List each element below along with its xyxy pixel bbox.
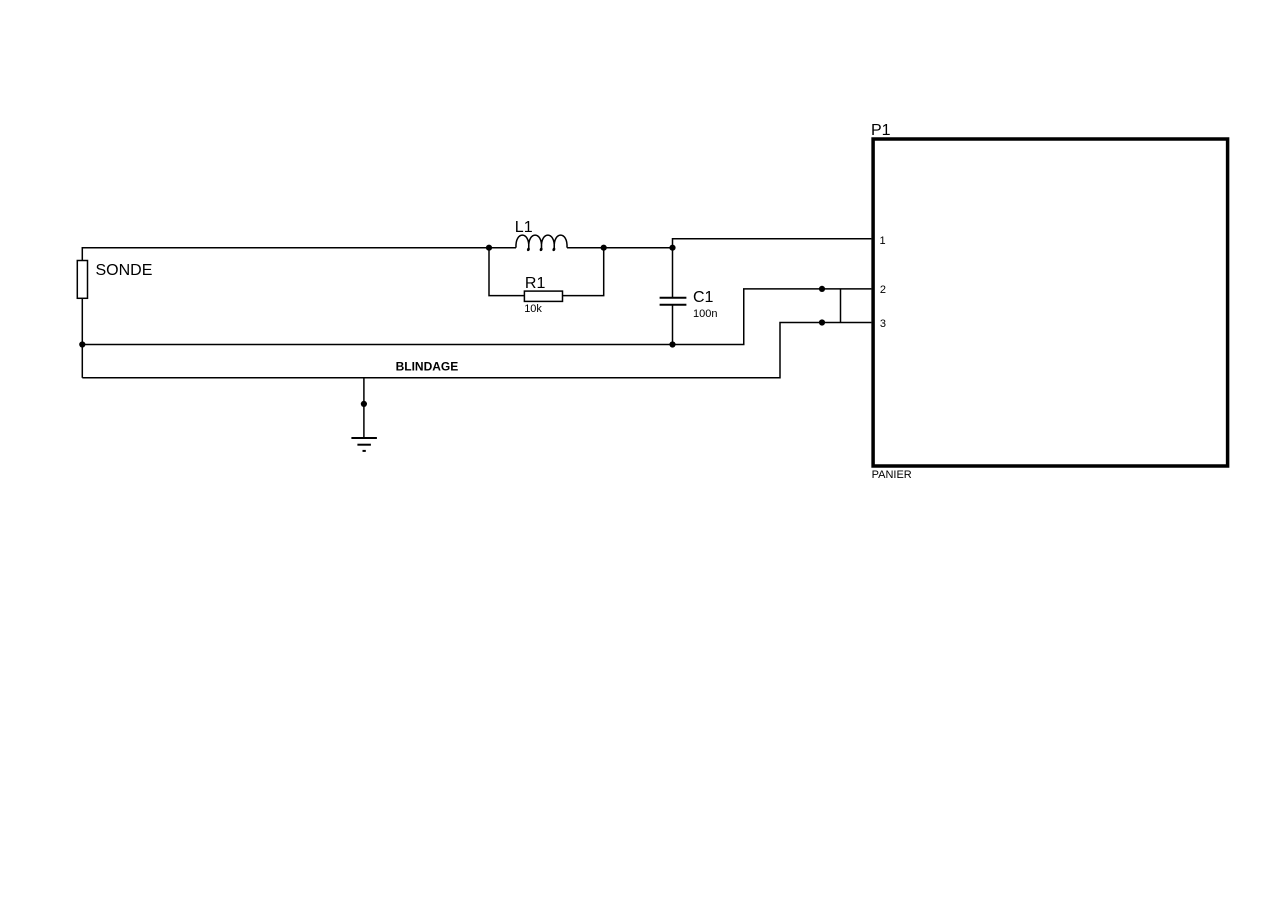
svg-text:P1: P1 xyxy=(871,122,891,139)
pin number 3 xyxy=(880,318,886,330)
node junction SONDE / middle wire xyxy=(79,341,85,347)
svg-text:1: 1 xyxy=(880,235,886,247)
svg-text:100n: 100n xyxy=(693,308,717,320)
svg-text:SONDE: SONDE xyxy=(96,262,153,279)
wire SONDE bottom lead down to blindage wire xyxy=(81,298,83,378)
wire blindage bottom from SONDE to P1 pin 3 xyxy=(82,323,871,378)
wire L1 right to C1 node xyxy=(567,247,673,249)
svg-text:10k: 10k xyxy=(524,303,542,315)
node on pin 3 wire xyxy=(819,319,825,325)
svg-text:2: 2 xyxy=(880,284,886,296)
label SONDE xyxy=(96,262,153,279)
ground symbol xyxy=(351,438,377,451)
label 10k xyxy=(524,303,542,315)
label L1 xyxy=(515,219,533,236)
label R1 xyxy=(525,275,546,292)
wire C1 top lead xyxy=(672,248,674,297)
inductor L1 xyxy=(516,235,567,250)
label PANIER xyxy=(872,469,912,481)
wire ground stub xyxy=(363,378,365,438)
wire pin 1 (C1 node jog up and across to P1) xyxy=(673,239,872,248)
pin number 1 xyxy=(880,235,886,247)
wire middle from SONDE node to P1 pin 2 xyxy=(82,289,871,345)
node ground junction xyxy=(361,401,367,407)
label 100n xyxy=(693,308,717,320)
wire R1 branch left xyxy=(489,248,524,296)
wire jumper pin2 to pin3 xyxy=(840,289,842,323)
label P1 xyxy=(871,122,891,139)
svg-text:BLINDAGE: BLINDAGE xyxy=(396,360,459,374)
svg-text:PANIER: PANIER xyxy=(872,469,912,481)
node C1 bottom xyxy=(669,341,675,347)
label BLINDAGE xyxy=(396,360,459,374)
node L1 left xyxy=(486,245,492,251)
svg-text:L1: L1 xyxy=(515,219,533,236)
connector P1 box xyxy=(873,139,1228,466)
probe SONDE body xyxy=(77,261,87,299)
pin number 2 xyxy=(880,284,886,296)
resistor R1 body xyxy=(524,291,562,301)
wire top horizontal from SONDE to L1 xyxy=(82,247,516,249)
capacitor C1 plates xyxy=(660,298,687,305)
label C1 xyxy=(693,289,714,306)
wire C1 bottom lead xyxy=(672,305,674,344)
wire SONDE top lead xyxy=(81,247,83,261)
node C1 top xyxy=(669,245,675,251)
svg-text:C1: C1 xyxy=(693,289,714,306)
svg-text:3: 3 xyxy=(880,318,886,330)
svg-text:R1: R1 xyxy=(525,275,546,292)
node L1 right xyxy=(601,245,607,251)
wire R1 branch right xyxy=(563,248,604,296)
node on pin 2 wire xyxy=(819,286,825,292)
